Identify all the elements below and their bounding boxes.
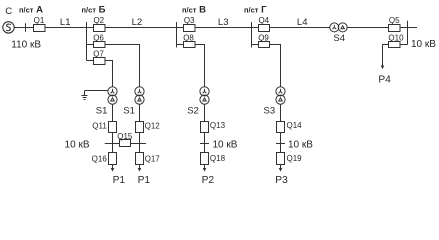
- svg-text:10 кВ: 10 кВ: [65, 139, 90, 150]
- svg-text:Q5: Q5: [389, 16, 400, 25]
- breaker Q2: [94, 25, 106, 32]
- svg-text:Q14: Q14: [287, 121, 303, 130]
- wire Q5 to line end: [400, 27, 417, 29]
- svg-text:S1: S1: [123, 106, 135, 117]
- svg-text:Q13: Q13: [210, 121, 226, 130]
- ground: [82, 91, 88, 100]
- svg-text:Q16: Q16: [92, 155, 108, 164]
- svg-text:10 кВ: 10 кВ: [411, 39, 436, 50]
- svg-text:Q1: Q1: [34, 16, 45, 25]
- bus substation B: [86, 22, 88, 61]
- breaker Q16: [109, 153, 117, 165]
- breaker Q14: [277, 122, 285, 133]
- svg-text:Q2: Q2: [93, 16, 104, 25]
- bus tie 10kV substation B: [105, 143, 146, 145]
- wire S2 to Q13: [204, 104, 206, 121]
- wire Q9 to transformer S3: [270, 45, 281, 88]
- wire Q14 to Q19: [280, 133, 282, 153]
- wire Q7 to transformer S1 left: [105, 61, 113, 88]
- transformer S1 left: [108, 87, 117, 104]
- breaker Q10: [389, 42, 401, 48]
- transformer S1 right: [135, 87, 144, 104]
- svg-text:Q3: Q3: [184, 16, 195, 25]
- svg-text:Q8: Q8: [183, 33, 194, 42]
- node tap mark: [25, 23, 27, 31]
- breaker Q17: [136, 153, 144, 165]
- breaker Q11: [109, 122, 117, 133]
- wire S4 to Q5: [347, 27, 388, 29]
- arrow load P4: [381, 66, 385, 70]
- svg-text:Q18: Q18: [210, 154, 226, 163]
- svg-text:S2: S2: [187, 106, 199, 117]
- svg-text:п/ст В: п/ст В: [182, 4, 206, 15]
- wire line L2: [105, 27, 177, 29]
- breaker Q9: [259, 42, 270, 48]
- svg-text:P4: P4: [378, 75, 391, 86]
- breaker Q1: [34, 25, 46, 32]
- bus 10kV right: [407, 21, 409, 45]
- breaker Q7: [94, 58, 106, 65]
- wire generator to Q1: [14, 27, 33, 29]
- svg-text:S1: S1: [96, 106, 108, 117]
- svg-text:L4: L4: [297, 17, 308, 28]
- transformer S4: [330, 23, 347, 32]
- svg-text:п/ст Б: п/ст Б: [82, 4, 106, 15]
- svg-text:10 кВ: 10 кВ: [213, 139, 238, 150]
- svg-text:Q6: Q6: [93, 33, 104, 42]
- svg-text:Q9: Q9: [258, 33, 269, 42]
- svg-text:L2: L2: [132, 17, 143, 28]
- svg-text:P3: P3: [275, 175, 288, 186]
- arrow load P1 right: [138, 168, 142, 172]
- bus 10kV substation V: [200, 143, 209, 145]
- arrow load P1 left: [111, 168, 115, 172]
- wire bus to Q3: [177, 27, 184, 29]
- svg-text:Q7: Q7: [93, 49, 104, 58]
- breaker Q6: [94, 42, 106, 48]
- wire bus to Q6: [87, 44, 94, 46]
- wire S1 right to Q12: [139, 104, 141, 121]
- generator C: [3, 22, 14, 33]
- wire bus to Q2: [87, 27, 94, 29]
- wire bus to Q10: [400, 44, 408, 46]
- wire S3 to Q14: [280, 104, 282, 121]
- wire ground to transformer S1 left: [85, 90, 109, 92]
- breaker Q18: [201, 153, 209, 165]
- wire S1 left to Q11: [112, 104, 114, 121]
- svg-text:Q17: Q17: [145, 155, 161, 164]
- svg-text:S4: S4: [333, 33, 345, 44]
- svg-text:P1: P1: [113, 175, 126, 186]
- breaker Q8: [184, 42, 196, 48]
- breaker Q3: [184, 25, 196, 32]
- wire Q17 to load P1: [139, 165, 141, 169]
- arrow load P3: [279, 168, 283, 172]
- breaker Q13: [201, 122, 209, 133]
- svg-text:P2: P2: [202, 175, 215, 186]
- arrow load P2: [203, 168, 207, 172]
- svg-text:P1: P1: [138, 175, 151, 186]
- svg-text:S3: S3: [263, 106, 275, 117]
- transformer S2: [200, 87, 209, 104]
- wire line L3: [195, 27, 252, 29]
- wire Q13 to Q18: [204, 133, 206, 153]
- wire bus to Q8: [177, 44, 184, 46]
- breaker Q15: [120, 140, 131, 147]
- svg-text:110 кВ: 110 кВ: [11, 40, 41, 51]
- wire Q8 to transformer S2: [195, 45, 205, 88]
- wire bus to Q4: [252, 27, 259, 29]
- svg-text:10 кВ: 10 кВ: [288, 139, 313, 150]
- bus 10kV substation G: [276, 143, 285, 145]
- breaker Q19: [277, 153, 285, 165]
- svg-text:Q4: Q4: [258, 16, 269, 25]
- svg-text:Q19: Q19: [287, 154, 303, 163]
- svg-text:L3: L3: [218, 17, 229, 28]
- svg-text:п/ст Г: п/ст Г: [244, 4, 267, 15]
- svg-text:п/ст А: п/ст А: [19, 4, 43, 15]
- bus substation V: [176, 22, 178, 48]
- wire Q10 to load P4: [383, 45, 389, 66]
- wire line L1: [45, 27, 87, 29]
- breaker Q5: [389, 25, 401, 32]
- wire bus to Q9: [252, 44, 259, 46]
- transformer S3: [276, 87, 285, 104]
- wire Q18 to load P2: [204, 165, 206, 169]
- svg-text:L1: L1: [60, 17, 71, 28]
- svg-text:Q10: Q10: [388, 33, 404, 42]
- wire Q19 to load P3: [280, 165, 282, 169]
- breaker Q4: [259, 25, 270, 32]
- svg-text:Q11: Q11: [92, 121, 107, 130]
- bus substation G: [251, 22, 253, 48]
- wire Q6 to transformer S1 right: [105, 45, 140, 88]
- svg-text:Q12: Q12: [145, 121, 161, 130]
- svg-text:C: C: [5, 6, 12, 17]
- breaker Q12: [136, 122, 144, 133]
- wire Q11 to Q16: [112, 133, 114, 153]
- wire line L4: [270, 27, 330, 29]
- wire Q16 to load P1: [112, 165, 114, 169]
- svg-text:Q15: Q15: [117, 132, 133, 141]
- wire bus to Q7: [87, 60, 94, 62]
- wire Q12 to Q17: [139, 133, 141, 153]
